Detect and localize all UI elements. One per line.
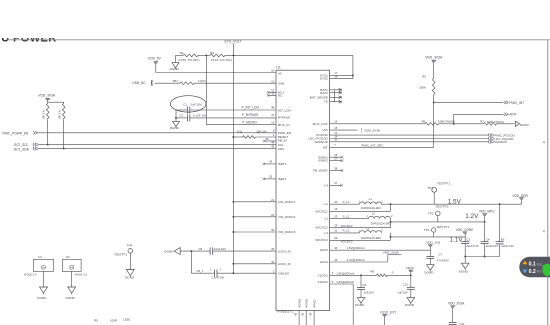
U1 right pin names (308, 74, 328, 285)
wire L3 pin lead (330, 229, 360, 233)
wire VLDO2 drop (352, 284, 354, 325)
svg-text:1uF,10V: 1uF,10V (191, 103, 202, 107)
inductor L2 (366, 212, 393, 226)
wire INT riser (433, 102, 435, 147)
svg-text:22: 22 (271, 213, 275, 217)
page ref 4 (upper) (543, 141, 545, 145)
svg-text:VDD_MPU: VDD_MPU (479, 210, 495, 214)
svg-text:AC: AC (278, 71, 283, 75)
U1 left pin numbers (271, 69, 275, 274)
wire VLDO2 line (330, 280, 355, 284)
svg-text:DAP4012H-2R2: DAP4012H-2R2 (361, 206, 381, 210)
wire VDD_5V to AC pin (156, 63, 276, 72)
testpoint TP1 (427, 181, 450, 204)
junction 1.2V / C4 tap (484, 221, 486, 223)
capacitor C8 (198, 247, 226, 255)
ground DGND below R1 (170, 63, 180, 72)
U1 bottom ground stubs (299, 310, 314, 325)
junction C9 tap (360, 274, 362, 276)
ground DGND below C1C2 (170, 121, 180, 129)
svg-text:DGND: DGND (164, 249, 174, 253)
wire INT line (330, 143, 434, 147)
svg-text:P_MUXIN: P_MUXIN (242, 120, 257, 124)
window right border (547, 40, 549, 325)
svg-text:1uF,16V: 1uF,16V (397, 290, 407, 294)
svg-text:VDCDC3: VDCDC3 (315, 238, 328, 242)
svg-text:15: 15 (334, 126, 338, 130)
junction 1.5V / C5 tap (499, 203, 501, 205)
svg-text:31: 31 (334, 229, 338, 233)
wire VDCDC2 feedback (330, 224, 391, 229)
wire SYS1 SYS2 stubs (330, 75, 353, 78)
svg-text:HOLE-1.6: HOLE-1.6 (75, 273, 88, 277)
svg-text:ISET2: ISET2 (278, 162, 287, 166)
svg-text:C1: C1 (183, 103, 187, 107)
svg-text:LED1: LED1 (123, 317, 131, 321)
testpoint TP4 (114, 243, 133, 256)
svg-text:100R: 100R (110, 319, 117, 323)
resistor R11 reset (237, 129, 266, 138)
svg-text:SYS_VOLT: SYS_VOLT (224, 40, 241, 44)
svg-text:K/s: K/s (537, 262, 543, 266)
resistor R51 (173, 79, 207, 84)
svg-text:1uF,16V: 1uF,16V (364, 290, 374, 294)
svg-text:VDD_DDR: VDD_DDR (512, 194, 528, 198)
svg-text:38: 38 (334, 166, 338, 170)
svg-text:VDCDC2: VDCDC2 (341, 224, 353, 228)
svg-text:DGND: DGND (459, 269, 469, 273)
svg-text:22uF,6.3V: 22uF,6.3V (486, 244, 499, 248)
svg-text:45: 45 (271, 145, 275, 149)
svg-text:VDD_5V: VDD_5V (148, 56, 162, 60)
node SYS_VOLT label (224, 40, 241, 44)
svg-text:16: 16 (334, 120, 338, 124)
svg-text:30: 30 (334, 138, 338, 142)
svg-text:PMIC_POWR_EN: PMIC_POWR_EN (2, 131, 29, 135)
svg-text:DGND: DGND (355, 303, 365, 307)
svg-text:TESTPT1: TESTPT1 (437, 181, 451, 185)
svg-text:1.1V: 1.1V (449, 236, 463, 243)
svg-text:12.1K, F% (NC): 12.1K, F% (NC) (211, 58, 232, 62)
svg-text:VDD_CORE: VDD_CORE (456, 228, 474, 232)
svg-text:TESTPT1: TESTPT1 (436, 225, 450, 229)
svg-text:14: 14 (271, 120, 275, 124)
junction SYS tie (352, 74, 354, 76)
svg-text:VLDO_EXT: VLDO_EXT (380, 310, 397, 314)
wire PWR_EN line (38, 132, 276, 134)
svg-text:VDCDC3: VDCDC3 (341, 240, 353, 244)
junction C2/gnd stem (175, 117, 177, 119)
svg-text:VIO: VIO (322, 128, 328, 132)
title underline (7, 39, 550, 41)
ground DGND H2 (66, 287, 76, 300)
junction SYS_VOLT/LDO4_IN (232, 263, 234, 265)
svg-text:R11: R11 (237, 129, 242, 133)
wire AINT branch (454, 114, 504, 124)
svg-text:43: 43 (334, 258, 338, 262)
svg-text:22uF,6.3V: 22uF,6.3V (501, 244, 514, 248)
wire WLED stub (330, 166, 344, 172)
svg-text:18: 18 (334, 75, 338, 79)
wire C1C2 ground stem (175, 110, 177, 121)
port AINT (504, 113, 517, 117)
port PMIC_INT (504, 101, 524, 105)
capacitor C5 (496, 204, 515, 256)
wire H2 to gnd (71, 271, 73, 287)
svg-text:P_BYPASS: P_BYPASS (242, 113, 258, 117)
junction SYS_VOLT/VIN_DCDC2 (232, 216, 234, 218)
svg-text:48: 48 (271, 105, 275, 109)
svg-text:VRTC: VRTC (406, 266, 415, 270)
svg-text:TP1: TP1 (427, 186, 433, 190)
testpoint TP3 (424, 225, 450, 237)
svg-text:21: 21 (271, 198, 275, 202)
junction VRTC node (410, 274, 412, 276)
svg-text:P_L2: P_L2 (343, 214, 350, 218)
svg-text:49: 49 (309, 312, 313, 315)
wire VIO stub (330, 126, 358, 130)
power VDD_1V8 (426, 241, 440, 251)
capacitor C2 (179, 114, 206, 122)
svg-text:TESTPT1: TESTPT1 (435, 205, 449, 209)
capacitor C10 (397, 275, 414, 297)
resistor R4 pullup (419, 62, 435, 102)
svg-text:VLDO2: VLDO2 (318, 280, 328, 284)
ground DGND input caps (164, 248, 180, 255)
highlight ellipse around C1 (170, 96, 206, 112)
svg-text:TS: TS (324, 100, 328, 104)
svg-text:R7: R7 (480, 120, 484, 124)
svg-text:LDO3_IN: LDO3_IN (278, 249, 291, 253)
wire LDO3 line (330, 246, 431, 250)
port USB_DC (132, 80, 153, 86)
svg-text:1.8V@200mA: 1.8V@200mA (336, 271, 354, 275)
svg-text:0 (NC): 0 (NC) (198, 79, 207, 83)
svg-text:10K,1%: 10K,1% (58, 109, 62, 119)
svg-text:R2: R2 (210, 51, 214, 55)
svg-text:VIN_DCDC1: VIN_DCDC1 (278, 200, 296, 204)
svg-text:L1: L1 (369, 197, 373, 201)
svg-text:DAP4012H-2R2: DAP4012H-2R2 (361, 236, 381, 240)
wire WAKEUP line (330, 138, 489, 142)
wire cap ground rail (465, 256, 499, 258)
svg-text:LDO3: LDO3 (320, 248, 328, 252)
svg-text:TP2: TP2 (428, 212, 434, 216)
wire ISINK2 stub (330, 156, 344, 162)
wire pullup tee (48, 100, 64, 103)
wire C1 leads / INT_LDO line (176, 109, 276, 111)
wire SDA line (38, 148, 276, 150)
inductor L1 (358, 197, 383, 210)
svg-text:I2C2_SDA: I2C2_SDA (14, 148, 30, 152)
wire L3 jog (390, 233, 392, 240)
resistor R5 label (94, 319, 98, 323)
wire R2 to SYS_VOLT rail and on to SYS tie (225, 54, 353, 56)
resistor R2 (210, 51, 232, 62)
svg-text:LDO4_IN: LDO4_IN (278, 262, 291, 266)
wire L2 pin lead (330, 214, 369, 218)
junction node P_MUXIN divider (205, 54, 207, 56)
junction SYS_VOLT/VIN_DCDC3 (232, 231, 234, 233)
svg-text:29: 29 (334, 236, 338, 240)
page title (clipped) (0, 33, 57, 45)
svg-text:C7: C7 (438, 252, 442, 256)
svg-text:DGND: DGND (37, 296, 47, 300)
svg-text:DGND: DGND (424, 270, 434, 274)
ground DGND C9 (355, 298, 365, 307)
svg-text:BYPASS: BYPASS (278, 116, 290, 120)
ground DGND caps (459, 263, 469, 273)
wire VDCDC1 feedback (330, 204, 391, 211)
page ref 4 (lower) (543, 229, 545, 233)
svg-text:L1: L1 (324, 202, 328, 206)
inductor L3 (358, 226, 383, 240)
op-amp U1 body (PMIC TPS65217C) (276, 66, 330, 314)
net label 1.5V (448, 199, 462, 206)
wire R10 to SDA (63, 119, 65, 149)
resistor R8 (370, 270, 393, 277)
overlay shield icon (543, 264, 550, 277)
svg-text:VINLDO: VINLDO (278, 271, 290, 275)
junction R10/SDA (63, 148, 65, 150)
svg-text:4.7uF6V0: 4.7uF6V0 (437, 259, 450, 263)
capacitor C11 (449, 308, 465, 325)
wire LDO4 line (330, 258, 388, 262)
svg-text:TP4: TP4 (127, 243, 133, 247)
junction INT/R4 (433, 101, 435, 103)
svg-text:VIN_DCDC3: VIN_DCDC3 (278, 230, 296, 234)
svg-text:3.3V@400mA: 3.3V@400mA (347, 258, 365, 262)
power VDD_5V flag (154, 62, 158, 64)
power VDD_DDR (512, 194, 528, 204)
svg-text:L4: L4 (324, 183, 328, 187)
svg-text:VDD_3V3A: VDD_3V3A (364, 128, 381, 132)
wire R9 to SCL (47, 119, 49, 145)
resistor R7 (480, 120, 504, 125)
resistor R10 pullup SDA (58, 104, 65, 120)
svg-text:ISET1: ISET1 (278, 177, 287, 181)
svg-text:24: 24 (334, 224, 338, 228)
junction rail/C4 (484, 256, 486, 258)
svg-text:FB_WLED: FB_WLED (313, 169, 328, 173)
svg-text:SDA: SDA (278, 147, 285, 151)
svg-text:L3: L3 (366, 226, 370, 230)
svg-text:1.2V: 1.2V (465, 213, 479, 220)
wire R11 leads (233, 136, 276, 138)
svg-text:12: 12 (271, 79, 275, 83)
svg-text:0.1uF 10V: 0.1uF 10V (193, 114, 207, 118)
svg-text:R8: R8 (370, 270, 374, 274)
capacitor C3 (461, 234, 479, 257)
svg-text:100K: 100K (419, 85, 426, 89)
svg-text:C4: C4 (486, 237, 490, 241)
svg-text:ISINK2: ISINK2 (318, 159, 328, 163)
svg-text:MUX_IN: MUX_IN (278, 123, 290, 127)
svg-text:WAKEUP: WAKEUP (494, 140, 507, 144)
svg-text:TPS65217C: TPS65217C (276, 310, 294, 314)
svg-text:INT_LDO: INT_LDO (278, 108, 292, 112)
svg-text:PMIC_INT: PMIC_INT (509, 101, 524, 105)
svg-text:NC: NC (278, 93, 283, 97)
U1 SYS pin numbers (334, 71, 338, 79)
resistor R6 (422, 120, 456, 126)
svg-text:22uF,6.3V: 22uF,6.3V (466, 244, 479, 248)
wire MUX_OUT line (330, 120, 425, 124)
svg-text:0.2: 0.2 (529, 269, 536, 275)
wire R1-R2 (198, 54, 210, 56)
junction R9/SCL (47, 144, 49, 146)
svg-text:1.5V: 1.5V (448, 199, 462, 206)
wire L1 pin lead (330, 200, 360, 204)
port WAKEUP (489, 140, 508, 144)
power VDD_3V3A for R4 (425, 55, 443, 62)
capacitor C9 (357, 275, 374, 297)
wire 1.1V line (391, 236, 466, 238)
svg-text:DGND: DGND (170, 126, 180, 130)
svg-text:DGND: DGND (520, 123, 530, 127)
wire gnd to C8 (180, 250, 210, 252)
svg-text:0.1: 0.1 (529, 262, 536, 268)
net label PMIC_INT_SRC (361, 143, 384, 147)
svg-text:L2: L2 (372, 212, 376, 216)
svg-text:E6: E6 (501, 237, 505, 241)
svg-text:TESTPT1: TESTPT1 (114, 253, 128, 257)
junction SYS_VOLT/VIN_DCDC1 (232, 201, 234, 203)
svg-text:100K,F%(NC): 100K,F%(NC) (438, 120, 455, 124)
svg-text:34: 34 (269, 159, 273, 163)
ground DGND right of R7 (515, 121, 529, 127)
wire PB_IN stub (263, 137, 276, 142)
capacitor C1 (183, 103, 201, 114)
svg-text:DGND: DGND (125, 275, 135, 279)
net label VDD_3V3A on LDO4 (383, 251, 400, 255)
svg-text:VDD_3V3A: VDD_3V3A (448, 302, 465, 306)
svg-text:BAT2: BAT2 (320, 91, 328, 95)
svg-text:U1: U1 (276, 66, 280, 70)
wire LDO4 to label (388, 255, 402, 263)
svg-text:MUX_OUT: MUX_OUT (313, 122, 328, 126)
svg-text:L3: L3 (324, 231, 328, 235)
svg-text:39: 39 (271, 247, 275, 251)
U1 bottom pin names (297, 298, 316, 308)
svg-text:10: 10 (271, 69, 275, 73)
svg-text:AINT: AINT (509, 113, 516, 117)
svg-text:4.75K, F% (NC): 4.75K, F% (NC) (178, 58, 199, 62)
svg-text:4: 4 (543, 229, 545, 233)
svg-text:PPAD: PPAD (312, 299, 316, 308)
LED1 label (123, 317, 131, 321)
wire VIN_DCDC2 line (233, 216, 276, 218)
svg-text:SYS2: SYS2 (320, 77, 328, 81)
svg-text:R4: R4 (422, 75, 426, 79)
svg-text:C9: C9 (362, 283, 366, 287)
svg-text:VDD_1V8: VDD_1V8 (426, 241, 440, 245)
svg-text:1.8V@200mA: 1.8V@200mA (336, 280, 354, 284)
wire VLDO1 line (330, 271, 377, 275)
svg-text:VDCDC1: VDCDC1 (315, 209, 328, 213)
svg-text:45: 45 (294, 312, 298, 315)
svg-text:AGND: AGND (297, 298, 301, 308)
svg-text:35: 35 (269, 174, 273, 178)
power VRTC (406, 266, 415, 275)
svg-text:C10: C10 (403, 283, 409, 287)
svg-text:INT: INT (323, 146, 328, 150)
svg-text:PMIC_INT_SRC: PMIC_INT_SRC (361, 143, 384, 147)
wire ISET2 stub (262, 159, 276, 165)
svg-text:23: 23 (334, 214, 338, 218)
wire 1.2V line (391, 221, 485, 223)
wire ISINK1 stub (330, 153, 344, 159)
junction L2 node (390, 221, 392, 223)
svg-text:47: 47 (271, 113, 275, 117)
wire ISET1 stub (262, 174, 276, 180)
wire LDO4_IN line (233, 263, 276, 265)
svg-text:P_L1: P_L1 (343, 200, 350, 204)
svg-text:PGND: PGND (305, 298, 309, 308)
testpoint TP2 (428, 205, 449, 222)
svg-text:40: 40 (334, 246, 338, 250)
svg-text:10K,1%: 10K,1% (42, 109, 46, 119)
wire C2 leads / BYPASS line (176, 117, 276, 119)
svg-text:1.8V@400mA: 1.8V@400mA (347, 246, 365, 250)
svg-text:VIN_DCDC2: VIN_DCDC2 (278, 215, 296, 219)
svg-text:4: 4 (543, 141, 545, 145)
U1 NC stubs (267, 91, 276, 97)
wire L4 stub (330, 181, 343, 187)
port LDO_PGOOD (489, 137, 515, 141)
wire R8 to VRTC node (387, 274, 411, 276)
ground DGND C7 (424, 265, 434, 275)
svg-text:22uF,10V: 22uF,10V (214, 247, 226, 251)
svg-text:32: 32 (271, 228, 275, 232)
net label P_INT_LDO (242, 105, 260, 109)
svg-text:38: 38 (301, 312, 305, 315)
port PMIC_POWR_EN (2, 131, 37, 135)
wire C8_1 to VINLDO (217, 272, 276, 274)
port I2C2_SDA (14, 147, 38, 152)
wire R1 left lead (176, 55, 184, 62)
svg-text:37: 37 (334, 181, 338, 185)
hole H1 (24, 255, 53, 277)
junction C8/C8_1 (190, 250, 192, 252)
overlay download row (523, 269, 543, 275)
svg-text:VDCDC2: VDCDC2 (315, 226, 328, 230)
svg-text:WAKEUP: WAKEUP (315, 140, 328, 144)
svg-text:19: 19 (334, 207, 338, 211)
power VDD_3V3A pullup flag (46, 98, 50, 100)
overlay speed widget pill (519, 257, 550, 277)
wire USB_DC to R51 (155, 82, 181, 84)
wire VDCDC3 feedback (330, 236, 391, 244)
wire SCL line (38, 144, 276, 146)
svg-text:P_INT_LDO: P_INT_LDO (242, 105, 260, 109)
ground DGND C10 (405, 298, 415, 307)
svg-text:USB: USB (278, 81, 284, 85)
junction rail/C3 (464, 256, 466, 258)
wire rail to DGND (464, 257, 466, 264)
R5 value 100R (110, 319, 117, 323)
hole H2 (62, 255, 87, 277)
wire INT to port (434, 101, 504, 103)
svg-text:2.2uF/10V: 2.2uF/10V (211, 276, 224, 280)
net label P_BYPASS (242, 113, 258, 117)
svg-text:HOLE-1.6: HOLE-1.6 (24, 273, 37, 277)
port I2C2_SCL (14, 143, 38, 147)
power VDD_5V label (148, 56, 162, 60)
wire node to R7 (454, 123, 484, 125)
svg-text:100K,F%(NC): 100K,F%(NC) (487, 120, 504, 124)
svg-text:VLDO1: VLDO1 (318, 273, 328, 277)
